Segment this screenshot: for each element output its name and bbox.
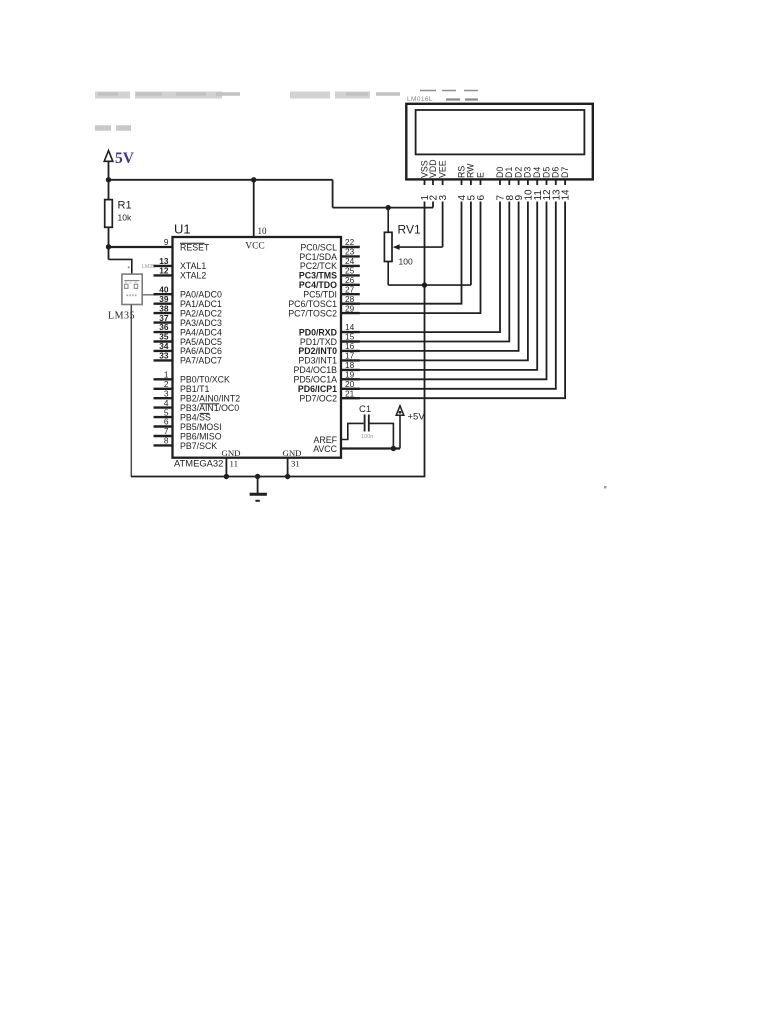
svg-text:2: 2: [164, 379, 169, 389]
svg-text:21: 21: [345, 388, 355, 398]
svg-text:R1: R1: [118, 200, 132, 212]
wire RW riser to LCD pin 5: [470, 179, 472, 285]
wire VEE riser to LCD pin 3: [442, 179, 444, 247]
wire pin 7 stub: [154, 435, 173, 437]
wire pin 40 stub: [154, 293, 173, 295]
svg-text:PC4/TDO: PC4/TDO: [299, 280, 337, 290]
svg-text:23: 23: [345, 247, 355, 257]
wire reset node to RESET pin: [109, 246, 173, 248]
svg-text:38: 38: [159, 303, 169, 313]
svg-text:PB6/MISO: PB6/MISO: [180, 431, 222, 441]
wire pin 25 stub: [341, 274, 360, 276]
svg-text:PC0/SCL: PC0/SCL: [300, 242, 337, 252]
svg-text:VDD: VDD: [428, 159, 438, 178]
wire PC7 to LCD E: [341, 179, 481, 313]
svg-text:RW: RW: [466, 163, 476, 178]
wire pin 38 stub: [154, 312, 173, 314]
svg-text:PA2/ADC2: PA2/ADC2: [180, 308, 222, 318]
wire pin 12 stub: [154, 274, 173, 276]
wire LM35 gnd down: [130, 305, 132, 477]
wire pin 36 stub: [154, 331, 173, 333]
wire AVCC pin: [341, 447, 400, 449]
svg-text:PA6/ADC6: PA6/ADC6: [180, 346, 222, 356]
wire pin 13 stub: [154, 265, 173, 267]
svg-text:17: 17: [345, 351, 355, 361]
svg-text:11: 11: [230, 459, 238, 469]
svg-text:10: 10: [258, 226, 268, 236]
wire pin 23 stub: [341, 255, 360, 257]
wire pin 34 stub: [154, 350, 173, 352]
svg-text:PD3/INT1: PD3/INT1: [298, 356, 337, 366]
svg-text:PB0/T0/XCK: PB0/T0/XCK: [180, 375, 230, 385]
svg-text:LM016L: LM016L: [407, 96, 433, 103]
speck artifact: [604, 486, 606, 488]
wire 5V to R1: [108, 180, 110, 200]
sensor LM35 body: [122, 274, 142, 304]
LCD pin number 12: [542, 185, 553, 202]
svg-text:33: 33: [159, 351, 169, 361]
wire pin 6 stub: [154, 425, 173, 427]
wire pin 37 stub: [154, 321, 173, 323]
power symbol 5V: [104, 151, 113, 180]
wire R1 to reset node: [108, 227, 110, 247]
svg-text:PD7/OC2: PD7/OC2: [299, 394, 337, 404]
wire pin 29 stub: [341, 312, 360, 314]
wire LM35 out to PA0: [142, 294, 156, 296]
svg-text:36: 36: [159, 322, 169, 332]
svg-text:C1: C1: [359, 404, 371, 415]
svg-text:VEE: VEE: [437, 160, 447, 178]
svg-text:ATMEGA32: ATMEGA32: [174, 458, 223, 469]
wire VSS line LCD pin 1 to ground rail: [424, 179, 426, 476]
junction VSS-RV1: [422, 282, 427, 287]
svg-text:24: 24: [345, 256, 355, 266]
wire pin 17 stub: [341, 359, 360, 361]
wire pin 16 stub: [341, 350, 360, 352]
svg-text:27: 27: [345, 284, 355, 294]
ghost faded text row 2: [95, 125, 131, 131]
LCD module body: [406, 104, 593, 180]
svg-text:8: 8: [164, 436, 169, 446]
wire GND pin 31: [287, 458, 289, 477]
junction reset node: [106, 244, 111, 249]
LCD pin number 2: [429, 185, 440, 202]
LCD pin number 3: [438, 185, 449, 202]
overline on PB3/AIN1/OC0: [200, 403, 220, 405]
LCD pin number 4: [457, 185, 468, 202]
wire RV1 bottom to RW: [388, 284, 471, 286]
wire pin 24 stub: [341, 265, 360, 267]
svg-text:PA7/ADC7: PA7/ADC7: [180, 356, 222, 366]
wire pin 19 stub: [341, 378, 360, 380]
svg-text:E: E: [475, 172, 485, 178]
power symbol +5V: [396, 406, 404, 449]
svg-text:PC7/TOSC2: PC7/TOSC2: [288, 308, 337, 318]
overline on PB4/SS: [200, 412, 210, 414]
ghost label above LCD: [407, 91, 478, 104]
LCD pin number 6: [476, 185, 487, 202]
wire 5V rail lower horizontal: [333, 207, 433, 209]
svg-text:GND: GND: [282, 448, 301, 458]
wire PD3 to LCD D3: [341, 179, 528, 360]
wire VCC pin: [253, 180, 255, 237]
wire elbow to LM35: [109, 259, 132, 274]
svg-text:40: 40: [159, 284, 169, 294]
wire ground rail: [131, 476, 425, 478]
svg-text:LM35: LM35: [142, 264, 155, 270]
wire PD6 to LCD D6: [341, 179, 556, 388]
IC U1 ATMEGA32 body: [173, 237, 342, 458]
wire RV1 top: [387, 208, 389, 233]
svg-text:PA3/ADC3: PA3/ADC3: [180, 318, 222, 328]
svg-text:5V: 5V: [115, 150, 135, 167]
wire pin 14 stub: [341, 331, 360, 333]
svg-text:6: 6: [476, 195, 487, 201]
svg-text:U1: U1: [174, 222, 191, 237]
wire pin 3 stub: [154, 397, 173, 399]
LCD screen: [416, 110, 585, 154]
wire pin 21 stub: [341, 397, 360, 399]
wire pin 28 stub: [341, 303, 360, 305]
wire pin 26 stub: [341, 284, 360, 286]
svg-text:14: 14: [345, 322, 355, 332]
wire pin 1 stub: [154, 378, 173, 380]
RV1 wiper arrow: [393, 244, 443, 250]
wire pin 5 stub: [154, 416, 173, 418]
ghost faded text row top: [95, 94, 400, 95]
LCD pin number 8: [505, 185, 516, 202]
svg-text:10k: 10k: [118, 213, 132, 223]
svg-text:6: 6: [164, 417, 169, 427]
junction rail-R1: [106, 177, 111, 182]
overline on RESET: [180, 242, 205, 244]
resistor R1: [105, 200, 113, 228]
svg-text:RV1: RV1: [398, 223, 421, 237]
wire pin 18 stub: [341, 369, 360, 371]
wire pin 39 stub: [154, 303, 173, 305]
svg-text:100: 100: [399, 257, 413, 267]
svg-text:PB7/SCK: PB7/SCK: [180, 441, 217, 451]
wire 5V rail drop: [332, 180, 334, 208]
ground symbol: [250, 477, 267, 501]
wire PC6 to LCD RS: [341, 179, 462, 303]
wire pin 22 stub: [341, 246, 360, 248]
LCD pin number 10: [524, 185, 535, 202]
LCD pin number 11: [533, 185, 544, 202]
wire pin 35 stub: [154, 340, 173, 342]
svg-text:XTAL1: XTAL1: [180, 261, 206, 271]
wire pin 15 stub: [341, 340, 360, 342]
wire pin 8 stub: [154, 444, 173, 446]
svg-text:100n: 100n: [361, 434, 373, 440]
wire RV1 bottom: [387, 262, 389, 286]
svg-text:16: 16: [345, 341, 355, 351]
junction AVCC node: [391, 446, 396, 451]
svg-text:XTAL2: XTAL2: [180, 271, 206, 281]
LCD pin number 1: [420, 185, 431, 202]
svg-text:AVCC: AVCC: [313, 444, 337, 454]
junction rail-RV1: [386, 205, 391, 210]
wire PD4 to LCD D4: [341, 179, 537, 370]
LCD pin number 13: [551, 185, 562, 202]
LCD pin number 14: [561, 185, 572, 202]
speck near elbow: [128, 267, 130, 269]
svg-text:PD5/OC1A: PD5/OC1A: [293, 375, 337, 385]
wire VDD riser to LCD pin 2: [432, 179, 434, 207]
LCD pin number 7: [496, 185, 507, 202]
wire pin 2 stub: [154, 388, 173, 390]
wire PD1 to LCD D1: [341, 179, 509, 341]
svg-text:29: 29: [345, 303, 355, 313]
capacitor C1: [365, 415, 369, 432]
wire pin 33 stub: [154, 359, 173, 361]
wire pin 4 stub: [154, 406, 173, 408]
svg-text:31: 31: [291, 459, 300, 469]
wire PD0 to LCD D0: [341, 179, 500, 332]
svg-text:4: 4: [164, 398, 169, 408]
svg-text:PB5/MOSI: PB5/MOSI: [180, 422, 222, 432]
wire PD5 to LCD D5: [341, 179, 547, 379]
wire 5V rail horizontal: [109, 179, 333, 181]
svg-text:14: 14: [561, 189, 572, 201]
junction rail-VCC: [251, 177, 256, 182]
junction rail pin31: [285, 474, 290, 479]
svg-text:D7: D7: [560, 167, 570, 178]
wire C1 to AVCC node: [369, 423, 394, 448]
LCD pin number 9: [514, 185, 525, 202]
wire pin 27 stub: [341, 293, 360, 295]
junction rail ground: [255, 474, 260, 479]
svg-text:VCC: VCC: [245, 242, 265, 252]
svg-text:20: 20: [345, 379, 355, 389]
svg-text:9: 9: [164, 237, 169, 247]
svg-text:34: 34: [159, 341, 169, 351]
svg-text:12: 12: [159, 266, 169, 276]
wire pin 20 stub: [341, 388, 360, 390]
wire AREF elbow: [341, 423, 364, 439]
wire GND pin 11: [225, 458, 227, 477]
svg-text:13: 13: [159, 256, 169, 266]
junction rail pin11: [224, 474, 229, 479]
svg-text:+5V: +5V: [408, 412, 426, 423]
svg-text:PD2/INT0: PD2/INT0: [298, 346, 337, 356]
svg-text:3: 3: [438, 195, 449, 201]
potentiometer RV1 body: [384, 232, 392, 261]
wire reset node down: [108, 247, 110, 259]
svg-text:PC2/TCK: PC2/TCK: [300, 261, 337, 271]
wire PD2 to LCD D2: [341, 179, 519, 351]
wire PD7 to LCD D7: [341, 179, 565, 398]
LCD pin number 5: [467, 185, 478, 202]
svg-text:GND: GND: [221, 448, 240, 458]
